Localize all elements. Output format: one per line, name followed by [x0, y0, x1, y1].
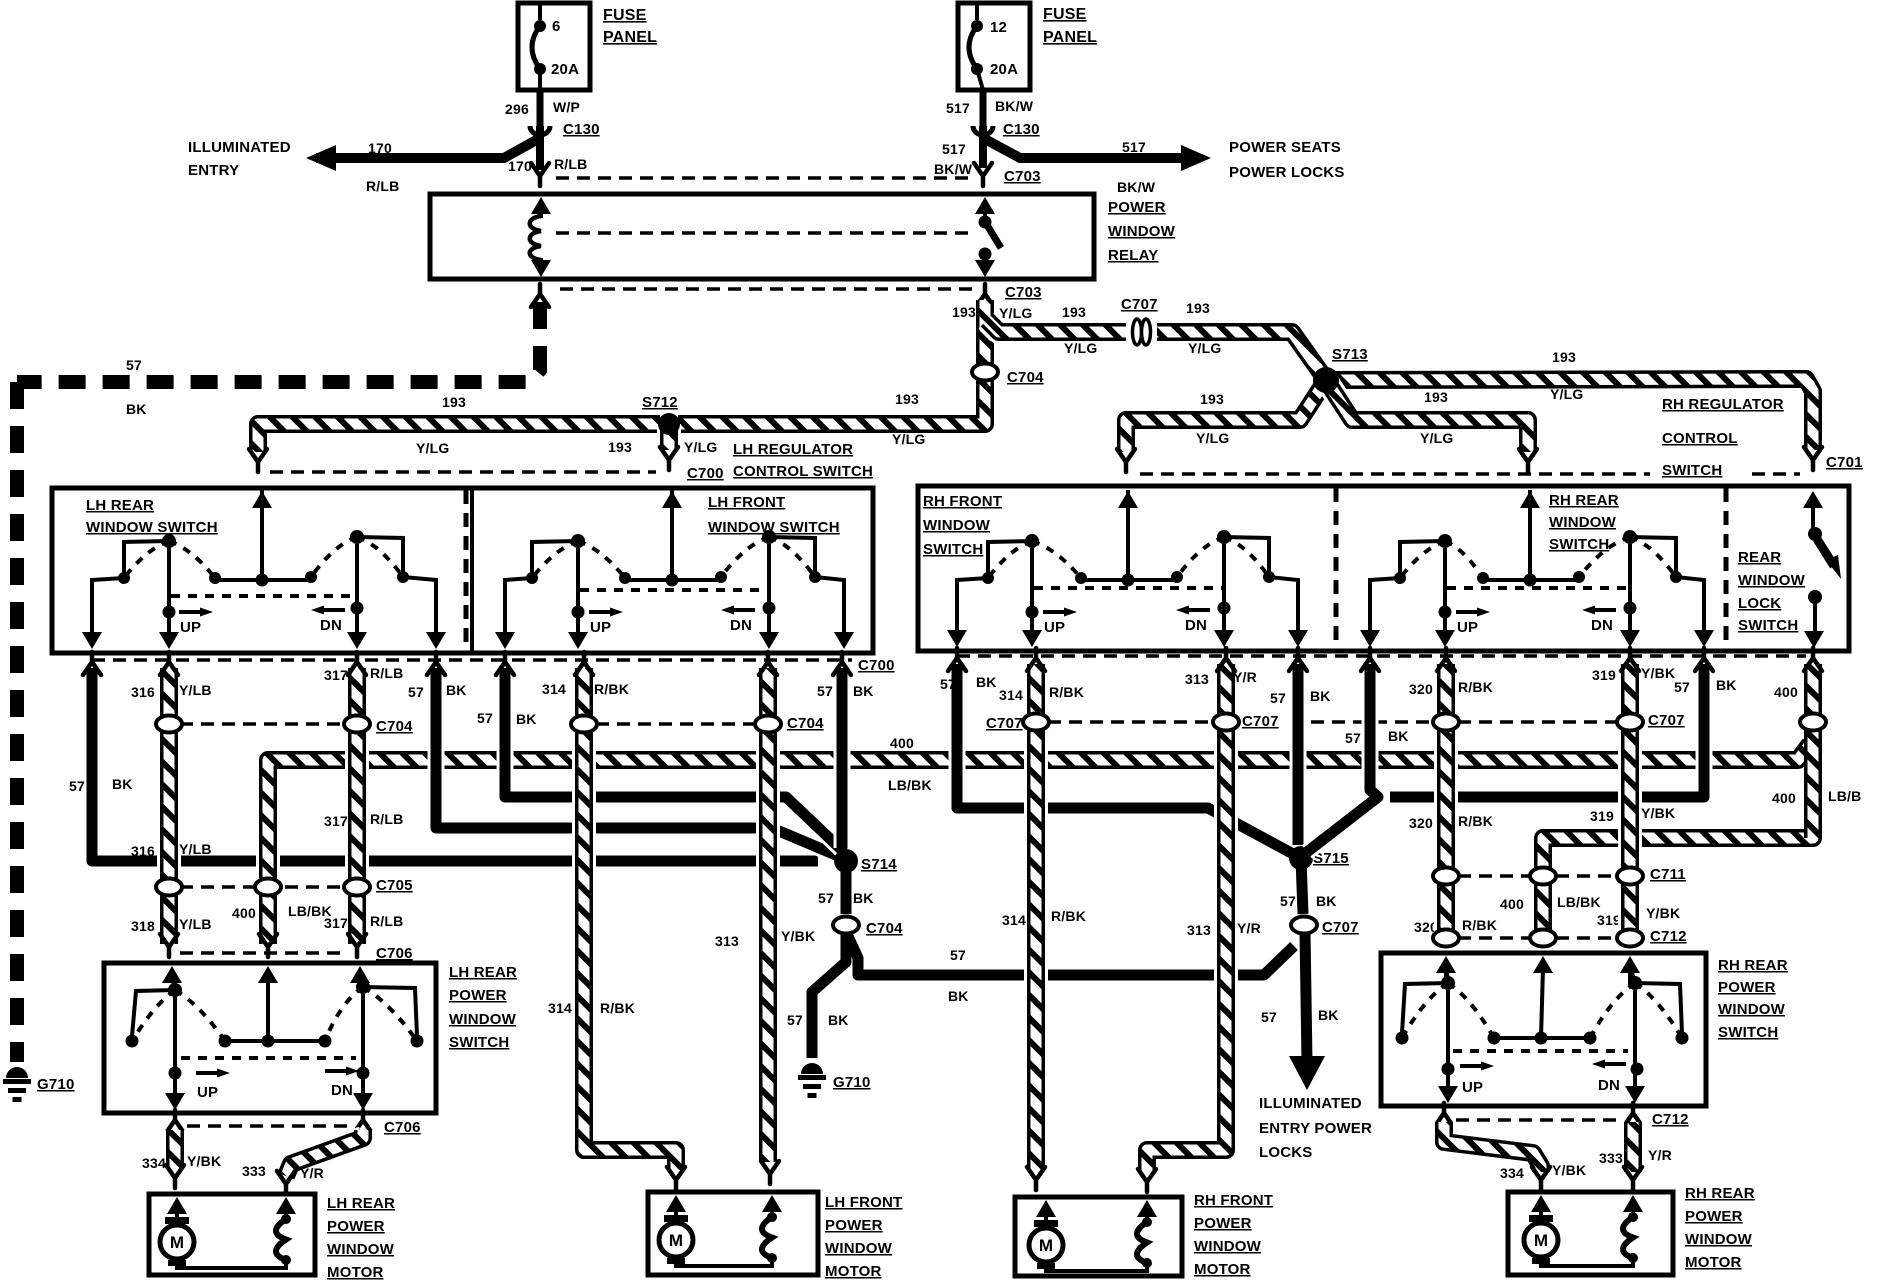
switch center feed: [670, 490, 674, 580]
svg-text:C712: C712: [1652, 1111, 1689, 1128]
svg-text:12: 12: [990, 19, 1007, 36]
wire C130 to relay: [536, 126, 544, 170]
wire 57 BK LH front left contact to S714: [505, 668, 844, 852]
left rocker RH rear PWS: [1446, 968, 1448, 981]
svg-text:RH REAR: RH REAR: [1685, 1185, 1755, 1202]
svg-text:Y/LG: Y/LG: [1550, 386, 1583, 402]
svg-text:57: 57: [477, 710, 493, 726]
svg-text:Y/LB: Y/LB: [179, 916, 212, 932]
left wiper: [1030, 548, 1034, 639]
connector C704 on relay wire: [972, 364, 998, 381]
svg-text:517: 517: [1122, 139, 1146, 155]
connector C707 on 400 wire: [1800, 714, 1826, 731]
svg-text:UP: UP: [197, 1084, 218, 1101]
svg-text:BK: BK: [1388, 728, 1409, 744]
svg-text:UP: UP: [1044, 619, 1065, 636]
connector C707 on 319: [1617, 714, 1643, 731]
wire 57 BK RH rear right contact to S715: [1390, 664, 1704, 797]
svg-text:6: 6: [552, 18, 561, 35]
svg-text:WINDOW: WINDOW: [1718, 1001, 1786, 1018]
svg-text:LH FRONT: LH FRONT: [825, 1194, 902, 1211]
fuse F1 element: [538, 3, 542, 20]
wire arrow to power seats locks: [983, 138, 1198, 158]
fork below RH switches at x=1446: [1437, 648, 1455, 671]
svg-text:LH REAR: LH REAR: [449, 964, 517, 981]
wire 400 from rear window lock switch: [1543, 664, 1813, 944]
UP DN arrows RH rear PWS: [1460, 1064, 1482, 1068]
mech link dashed bottom switch: [181, 1056, 356, 1060]
svg-text:C701: C701: [1826, 454, 1863, 471]
svg-text:RH REAR: RH REAR: [1549, 492, 1619, 509]
svg-text:LB/B: LB/B: [1828, 788, 1861, 804]
wire 334 Y/BK to LH rear motor: [163, 1130, 187, 1168]
LH rear power window switch box: [104, 963, 436, 1113]
svg-text:57: 57: [817, 683, 833, 699]
svg-text:57: 57: [1280, 893, 1296, 909]
svg-text:334: 334: [142, 1155, 166, 1171]
svg-text:C712: C712: [1650, 928, 1687, 945]
svg-text:C704: C704: [1007, 369, 1044, 386]
svg-text:C705: C705: [376, 877, 413, 894]
svg-text:M: M: [170, 1233, 184, 1252]
svg-text:DN: DN: [730, 617, 752, 634]
svg-text:Y/LG: Y/LG: [1064, 340, 1097, 356]
fuse F2 box: [958, 3, 1030, 90]
wire 314 R/BK LH vertical: [584, 668, 676, 1170]
fuse F2 element: [975, 3, 979, 20]
svg-text:400: 400: [1772, 790, 1796, 806]
motor field coil: [1623, 1217, 1633, 1258]
connector C705 on 316: [156, 879, 182, 896]
svg-text:Y/LG: Y/LG: [1188, 340, 1221, 356]
svg-text:C700: C700: [858, 657, 895, 674]
svg-text:C703: C703: [1004, 168, 1041, 185]
svg-text:R/LB: R/LB: [370, 913, 403, 929]
svg-text:Y/LB: Y/LB: [179, 682, 212, 698]
svg-text:LOCKS: LOCKS: [1259, 1144, 1313, 1161]
motor entries: [167, 1197, 187, 1214]
motor bottom wire: [177, 1260, 286, 1268]
svg-text:Y/LG: Y/LG: [1420, 430, 1453, 446]
svg-text:RH FRONT: RH FRONT: [1194, 1192, 1273, 1209]
wire fuse F1 to C130: [537, 90, 544, 126]
power window relay box: [430, 194, 1094, 279]
svg-text:MOTOR: MOTOR: [825, 1263, 882, 1280]
LH window switches outer box: [52, 488, 873, 653]
svg-text:Y/BK: Y/BK: [1641, 665, 1675, 681]
svg-text:FUSE: FUSE: [603, 7, 647, 24]
wire S713 down-right to RH rear switch: [1326, 380, 1528, 452]
svg-text:BK/W: BK/W: [934, 161, 973, 177]
left contact wire to exit: [957, 578, 988, 641]
motor symbol: [659, 1223, 693, 1257]
svg-text:LOCK: LOCK: [1738, 595, 1781, 612]
svg-text:57: 57: [1674, 679, 1690, 695]
svg-text:296: 296: [505, 101, 529, 117]
svg-text:57: 57: [126, 357, 142, 373]
connector C704 on 313 LH: [755, 716, 781, 733]
svg-text:193: 193: [1424, 389, 1448, 405]
dashed C705 LH: [180, 885, 346, 889]
svg-text:W/P: W/P: [553, 99, 580, 115]
wire S713 down-left to RH front switch: [1126, 380, 1326, 452]
svg-text:400: 400: [1774, 684, 1798, 700]
wire S713 to C701 right run: [1326, 379, 1813, 450]
connector C707 on 313 RH: [1213, 714, 1239, 731]
svg-text:M: M: [669, 1231, 683, 1250]
svg-text:LH REAR: LH REAR: [86, 497, 154, 514]
svg-text:R/BK: R/BK: [600, 1000, 635, 1016]
fork C700 at x=92: [83, 652, 101, 675]
svg-text:WINDOW: WINDOW: [1194, 1238, 1262, 1255]
center feed bottom switch: [266, 978, 270, 1041]
svg-text:C711: C711: [1650, 866, 1686, 883]
svg-text:RH REAR: RH REAR: [1718, 957, 1788, 974]
right wiper: [767, 544, 771, 641]
svg-text:334: 334: [1500, 1165, 1524, 1181]
switch right rocker: [1630, 537, 1676, 577]
svg-text:R/LB: R/LB: [554, 156, 587, 172]
wire 193 branch to C707 run: [987, 320, 1126, 332]
svg-text:BK: BK: [1316, 893, 1337, 909]
switch left rocker: [124, 541, 169, 578]
svg-text:SWITCH: SWITCH: [1549, 536, 1609, 553]
svg-text:C703: C703: [1005, 284, 1042, 301]
fork below RH switches at x=1036: [1027, 648, 1045, 671]
wire 317 R/LB vertical: [345, 668, 369, 944]
switch left rocker: [1400, 541, 1445, 578]
wire 333 Y/R to LH rear motor: [286, 1130, 363, 1176]
divider LH rear/front dashed: [464, 490, 469, 651]
svg-text:SWITCH: SWITCH: [1718, 1024, 1778, 1041]
connector C711 on 319: [1617, 868, 1643, 885]
arrow 320 into RH rear power window switch: [1436, 956, 1456, 973]
dashed connector line C130-C703: [556, 176, 968, 180]
svg-text:314: 314: [548, 1000, 572, 1016]
svg-text:57: 57: [818, 890, 834, 906]
svg-text:Y/R: Y/R: [1648, 1147, 1672, 1163]
fork below RH switches at x=1813: [1804, 648, 1822, 671]
relay coil: [531, 197, 551, 214]
svg-text:LH REGULATOR: LH REGULATOR: [733, 441, 853, 458]
svg-text:57: 57: [1261, 1009, 1277, 1025]
motor box: [149, 1194, 315, 1275]
connector C712 on 320: [1433, 930, 1459, 947]
svg-text:WINDOW: WINDOW: [1108, 223, 1176, 240]
wire fuse F2 to C130: [980, 90, 987, 126]
svg-text:BK: BK: [976, 674, 997, 690]
svg-text:57: 57: [950, 947, 966, 963]
wire 57 BK RH front right to S715: [1290, 664, 1307, 845]
svg-text:R/BK: R/BK: [1458, 813, 1493, 829]
svg-text:SWITCH: SWITCH: [1738, 617, 1798, 634]
fork C700 at x=505: [496, 652, 514, 675]
svg-text:POWER: POWER: [825, 1217, 883, 1234]
connector C705 on 317: [344, 879, 370, 896]
fuse F1 box: [518, 3, 590, 90]
divider RH front/rear dashed: [1334, 488, 1339, 649]
svg-text:57: 57: [1270, 690, 1286, 706]
svg-text:SWITCH: SWITCH: [923, 541, 983, 558]
svg-text:UP: UP: [1457, 619, 1478, 636]
right contact wire to exit: [815, 577, 844, 643]
dashed line above LH switch boxes: [270, 470, 656, 474]
forks C706 below box: [166, 1110, 184, 1133]
wire C704 to G710 middle: [812, 932, 846, 1058]
svg-text:C704: C704: [866, 920, 903, 937]
wire 57 BK fat dashed from relay to left edge and down to G710: [17, 302, 540, 382]
wire 57 BK RH front left to S715: [957, 664, 1295, 855]
DN arrow and label: [1594, 608, 1616, 612]
svg-text:WINDOW: WINDOW: [1549, 514, 1617, 531]
svg-text:193: 193: [952, 304, 976, 320]
svg-text:319: 319: [1590, 808, 1614, 824]
svg-text:314: 314: [999, 687, 1023, 703]
connector C707 on S715 ground wire: [1291, 917, 1317, 934]
svg-text:DN: DN: [1598, 1077, 1620, 1094]
wire C707 to illuminated entry arrow: [1305, 932, 1307, 1062]
svg-text:WINDOW: WINDOW: [1685, 1231, 1753, 1248]
right contact wire to exit: [403, 577, 436, 643]
UP arrow and label: [179, 610, 201, 614]
motor box: [648, 1192, 818, 1275]
svg-text:Y/BK: Y/BK: [781, 928, 815, 944]
divider RH rear/lock dashed: [1724, 488, 1729, 649]
relay bottom forks and C703: [531, 284, 549, 307]
svg-text:C130: C130: [563, 121, 600, 138]
svg-text:R/BK: R/BK: [1458, 679, 1493, 695]
wire 316 Y/LB vertical: [157, 668, 181, 944]
svg-text:C700: C700: [687, 465, 724, 482]
svg-text:BK/W: BK/W: [995, 98, 1034, 114]
motor entries: [1531, 1195, 1551, 1212]
svg-text:POWER SEATS: POWER SEATS: [1229, 139, 1341, 156]
RH rear power window switch box: [1381, 953, 1706, 1106]
svg-text:BK: BK: [516, 711, 537, 727]
fork C700 at x=357: [348, 652, 366, 675]
motor entries: [1036, 1200, 1056, 1217]
svg-text:400: 400: [1500, 896, 1524, 912]
svg-text:POWER: POWER: [449, 987, 507, 1004]
svg-text:Y/R: Y/R: [1237, 920, 1261, 936]
dashed C706 below box: [187, 1124, 350, 1128]
switch right rocker: [769, 537, 815, 577]
svg-text:57: 57: [787, 1012, 803, 1028]
svg-text:193: 193: [1552, 349, 1576, 365]
DN arrow and label: [1188, 608, 1210, 612]
switch mechanical link dashed: [1034, 586, 1222, 590]
arrow 400 into RH rear power window switch: [1533, 956, 1553, 973]
wire 57 BK LH rear right contact to S714: [436, 668, 843, 858]
switch center feed: [1126, 490, 1130, 580]
svg-text:BK: BK: [446, 682, 467, 698]
svg-text:C707: C707: [1648, 712, 1685, 729]
svg-text:POWER: POWER: [1685, 1208, 1743, 1225]
fork into LH front motor right: [761, 1161, 779, 1184]
svg-text:M: M: [1534, 1231, 1548, 1250]
svg-text:C707: C707: [986, 715, 1023, 732]
dashed connector line C700 below LH switches: [92, 658, 852, 662]
svg-text:316: 316: [131, 684, 155, 700]
svg-text:M: M: [1039, 1236, 1053, 1255]
connector C704 on 314 LH: [571, 716, 597, 733]
motor field coil: [1137, 1222, 1147, 1263]
connector C703 top: [974, 163, 992, 186]
svg-text:20A: 20A: [551, 61, 579, 78]
wire S714 to C704 ground: [841, 861, 852, 914]
ground G710 middle: [801, 1063, 823, 1074]
connector C704 on 316: [156, 716, 182, 733]
svg-text:WINDOW: WINDOW: [327, 1241, 395, 1258]
svg-text:57: 57: [408, 684, 424, 700]
svg-text:C130: C130: [1003, 121, 1040, 138]
switch left rocker: [988, 541, 1032, 578]
dashed C712: [1458, 936, 1530, 940]
left wiper bottom switch: [173, 996, 177, 1100]
svg-text:C707: C707: [1242, 713, 1279, 730]
left rocker bottom switch: [172, 978, 175, 988]
motor entries: [666, 1195, 686, 1212]
motor field coil: [762, 1217, 772, 1258]
motor box: [1508, 1192, 1673, 1275]
dashed C704 mid: [596, 722, 756, 726]
switch mechanical link dashed: [171, 594, 355, 598]
ground G710 left: [6, 1067, 28, 1078]
svg-text:320: 320: [1409, 815, 1433, 831]
switch right rocker: [357, 537, 403, 577]
svg-text:BK: BK: [126, 401, 147, 417]
svg-text:POWER: POWER: [327, 1218, 385, 1235]
svg-text:318: 318: [131, 918, 155, 934]
svg-text:313: 313: [1187, 922, 1211, 938]
svg-text:ILLUMINATED: ILLUMINATED: [1259, 1095, 1362, 1112]
right wiper: [355, 544, 359, 641]
motor bottom wire: [1541, 1258, 1633, 1266]
svg-text:193: 193: [1062, 304, 1086, 320]
UP arrow and label: [589, 610, 611, 614]
UP DN arrows bottom switch: [196, 1071, 218, 1075]
motor symbol: [1524, 1223, 1558, 1257]
svg-text:CONTROL: CONTROL: [1662, 430, 1738, 447]
svg-text:Y/BK: Y/BK: [187, 1153, 221, 1169]
svg-text:BK: BK: [828, 1012, 849, 1028]
svg-text:57: 57: [1345, 730, 1361, 746]
svg-text:57: 57: [940, 676, 956, 692]
connector C700 fork: [660, 447, 678, 470]
svg-text:193: 193: [442, 394, 466, 410]
connector C704 on ground wire: [833, 917, 859, 934]
svg-text:CONTROL SWITCH: CONTROL SWITCH: [733, 463, 873, 480]
svg-text:319: 319: [1597, 912, 1621, 928]
junction S713: [1313, 367, 1339, 393]
connector C130 right: [973, 126, 993, 135]
fork into RH front motor left: [1027, 1167, 1045, 1190]
svg-text:Y/LG: Y/LG: [892, 431, 925, 447]
svg-text:R/BK: R/BK: [1462, 917, 1497, 933]
connector C130 left: [530, 126, 550, 135]
svg-text:193: 193: [1186, 300, 1210, 316]
wire C130 to relay right: [979, 126, 987, 168]
svg-text:313: 313: [1185, 671, 1209, 687]
motor bottom wire: [676, 1258, 772, 1266]
svg-text:170: 170: [508, 158, 532, 174]
motor symbol: [1029, 1228, 1063, 1262]
switch left rocker: [532, 541, 578, 578]
fork C700 at x=842: [833, 652, 851, 675]
svg-text:317: 317: [324, 813, 348, 829]
svg-text:313: 313: [715, 933, 739, 949]
svg-text:LB/BK: LB/BK: [288, 903, 332, 919]
fork C706 on 317: [348, 934, 366, 957]
right wiper bottom switch: [361, 994, 365, 1100]
svg-text:POWER: POWER: [1718, 979, 1776, 996]
dashed connector line below RH switches: [957, 654, 1806, 658]
svg-text:Y/BK: Y/BK: [1552, 1162, 1586, 1178]
svg-text:PANEL: PANEL: [603, 29, 657, 46]
svg-text:UP: UP: [1462, 1079, 1483, 1096]
svg-text:MOTOR: MOTOR: [327, 1264, 384, 1280]
svg-text:LH FRONT: LH FRONT: [708, 494, 785, 511]
fork below RH switches at x=1704: [1695, 648, 1713, 671]
wire C707 to S713: [1157, 332, 1326, 380]
wire 314 R/BK RH vertical: [1024, 664, 1048, 1170]
svg-text:WINDOW: WINDOW: [923, 517, 991, 534]
svg-text:UP: UP: [180, 619, 201, 636]
dashed C707 RH: [1048, 720, 1214, 724]
svg-text:POWER LOCKS: POWER LOCKS: [1229, 164, 1345, 181]
wire S712 to LH rear switch: [258, 424, 660, 452]
connector C707 inline: [1133, 319, 1142, 345]
right wiper RH rear PWS: [1633, 990, 1637, 1094]
fork below RH switches at x=957: [948, 648, 966, 671]
motor symbol: [160, 1225, 194, 1259]
connector C712 on 319: [1617, 930, 1643, 947]
left wiper RH rear PWS: [1446, 990, 1450, 1094]
svg-text:BK: BK: [112, 776, 133, 792]
fork C700 at x=584: [575, 652, 593, 675]
svg-text:S714: S714: [861, 856, 897, 873]
wire 334 Y/BK to RH rear motor: [1444, 1122, 1541, 1172]
svg-text:SWITCH: SWITCH: [1662, 462, 1722, 479]
svg-text:Y/LG: Y/LG: [1196, 430, 1229, 446]
left contact wire to exit: [505, 578, 532, 643]
svg-text:R/BK: R/BK: [1051, 908, 1086, 924]
fork below RH switches at x=1226: [1217, 648, 1235, 671]
fork C706 on 316: [160, 934, 178, 957]
svg-text:R/LB: R/LB: [370, 811, 403, 827]
wire 400 LB/BK main horizontal: [268, 744, 1810, 772]
svg-text:LH REAR: LH REAR: [327, 1195, 395, 1212]
svg-text:LB/BK: LB/BK: [1557, 894, 1601, 910]
relay switch: [975, 197, 995, 214]
svg-text:G710: G710: [833, 1074, 871, 1091]
svg-text:Y/LG: Y/LG: [999, 305, 1032, 321]
svg-text:C704: C704: [376, 718, 413, 735]
switch center feed: [1528, 490, 1532, 580]
svg-text:20A: 20A: [990, 61, 1018, 78]
svg-text:FUSE: FUSE: [1043, 6, 1087, 23]
right rocker RH rear PWS: [1630, 968, 1635, 981]
wire 320 R/BK vertical: [1434, 664, 1458, 944]
motor bottom wire: [1046, 1263, 1147, 1271]
svg-text:193: 193: [895, 391, 919, 407]
switch center feed: [260, 490, 264, 580]
svg-text:Y/LB: Y/LB: [179, 841, 212, 857]
svg-text:RH FRONT: RH FRONT: [923, 493, 1002, 510]
connector C701 fork: [1804, 447, 1822, 470]
svg-text:S712: S712: [642, 394, 678, 411]
arrows into box: [162, 966, 182, 983]
